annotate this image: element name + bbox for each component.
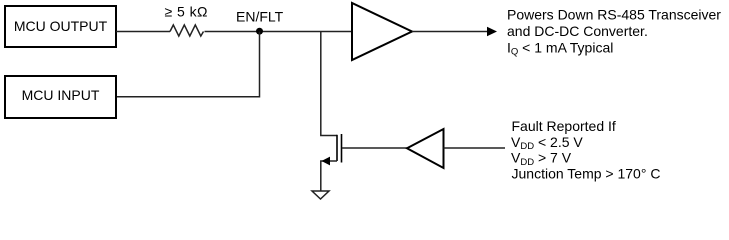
inverter U2 (fault buffer, pointing left): [407, 129, 444, 168]
svg-text:MCU OUTPUT: MCU OUTPUT: [14, 18, 108, 34]
wire gate to inverter: [342, 147, 407, 149]
wire EN/FLT line down to MOSFET drain: [321, 32, 337, 136]
transistor Q1 gate bar: [341, 134, 343, 163]
svg-text:and DC-DC Converter.: and DC-DC Converter.: [507, 23, 648, 39]
buffer U1 (enable buffer): [352, 3, 412, 60]
MCU INPUT box: [5, 76, 116, 118]
svg-text:EN/FLT: EN/FLT: [236, 9, 284, 25]
svg-text:MCU INPUT: MCU INPUT: [22, 87, 100, 103]
svg-text:Junction Temp > 170° C: Junction Temp > 170° C: [512, 165, 661, 181]
arrowhead to annotation: [487, 27, 497, 36]
transistor Q1 (NMOS) channel bar: [336, 135, 338, 161]
svg-text:Powers Down RS-485 Transceiver: Powers Down RS-485 Transceiver: [507, 7, 721, 23]
transistor Q1 source wire: [321, 161, 337, 191]
node EN/FLT junction dot: [256, 28, 263, 35]
wire resistor to buffer input (through EN/FLT node): [205, 31, 353, 33]
ground: [312, 191, 329, 199]
MCU OUTPUT box: [5, 6, 116, 47]
resistor R1 zigzag: [170, 25, 204, 36]
wire MCU OUTPUT to resistor: [116, 31, 170, 33]
wire EN/FLT node down to MCU INPUT: [117, 32, 260, 97]
annotation: fault reported text: [511, 118, 660, 181]
svg-text:IQ < 1 mA Typical: IQ < 1 mA Typical: [507, 40, 613, 58]
svg-text:≥ 5 kΩ: ≥ 5 kΩ: [165, 4, 208, 20]
wire buffer output to arrow: [412, 31, 488, 33]
annotation: powers down text: [507, 7, 721, 58]
svg-text:Fault Reported If: Fault Reported If: [512, 118, 616, 134]
wire inverter input from fault logic: [444, 147, 506, 149]
transistor Q1 source arrow: [322, 157, 331, 166]
